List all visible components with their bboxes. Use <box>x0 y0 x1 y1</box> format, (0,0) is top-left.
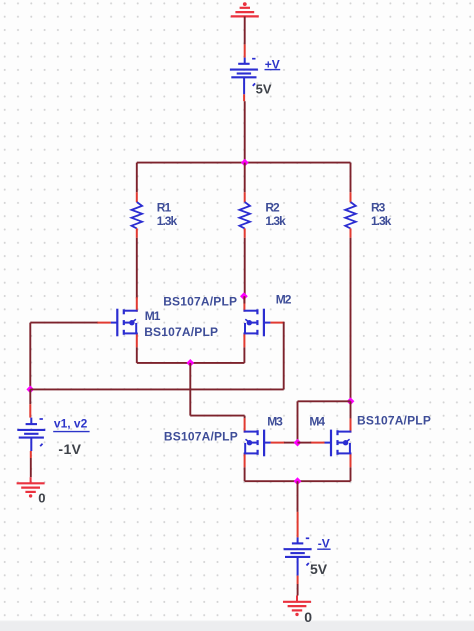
wire R3 down to mirror node <box>350 238 352 401</box>
voltage source v1,v2 positive pin <box>30 404 31 424</box>
svg-text:M2: M2 <box>276 293 292 307</box>
wire node to M4 gate <box>298 442 312 444</box>
svg-text:BS107A/PLP: BS107A/PLP <box>164 430 238 444</box>
resistor R2 bottom pin <box>244 228 246 237</box>
svg-text:1.3k: 1.3k <box>157 214 178 228</box>
wire bus to R3 <box>350 163 352 193</box>
svg-text:BS107A/PLP: BS107A/PLP <box>163 295 237 309</box>
label M3 <box>267 415 283 429</box>
value label BS107A/PLP of M4 <box>357 414 431 428</box>
svg-text:1.3k: 1.3k <box>371 214 392 228</box>
wire M2 gate riser <box>283 322 285 390</box>
value label 1.3k of R2 <box>265 214 286 228</box>
svg-text:M3: M3 <box>267 415 283 429</box>
wire node A horizontal <box>30 388 283 390</box>
voltage source -V negative pin <box>297 557 299 584</box>
svg-text:BS107A/PLP: BS107A/PLP <box>144 325 218 339</box>
svg-text:1.3k: 1.3k <box>265 214 286 228</box>
net label +V <box>265 57 281 71</box>
transistor M2 <box>244 309 271 337</box>
label M2 <box>276 293 292 307</box>
svg-text:R2: R2 <box>265 201 280 215</box>
svg-text:R1: R1 <box>157 201 172 215</box>
wire source bus <box>137 362 245 364</box>
wire v1 source to ground <box>30 458 32 483</box>
wire M4 drain <box>350 401 352 418</box>
value label 1.3k of R1 <box>157 214 178 228</box>
transistor M2 pins <box>244 297 284 347</box>
wire M3 source down <box>244 467 246 481</box>
label R3 <box>371 201 386 215</box>
svg-text:5V: 5V <box>310 561 328 577</box>
wire node A to v1 source <box>29 389 31 404</box>
wire top ground to V+ source <box>244 16 246 44</box>
net label v1, v2 <box>53 417 89 432</box>
resistor R2 top pin <box>244 192 246 202</box>
value label -1V of v1,v2 <box>58 441 81 457</box>
wire mirror node horizontal <box>298 401 351 442</box>
svg-text:0: 0 <box>304 609 312 625</box>
junction node A <box>26 386 34 394</box>
voltage source -V battery <box>284 538 312 565</box>
ground 0 left <box>17 483 45 497</box>
resistor R2 <box>239 202 250 229</box>
junction source bus <box>186 359 194 367</box>
resistor R3 <box>345 202 356 229</box>
transistor M3 <box>244 430 271 457</box>
svg-text:BS107A/PLP: BS107A/PLP <box>357 414 431 428</box>
svg-text:R3: R3 <box>371 201 386 215</box>
transistor M3 pins <box>245 418 285 467</box>
voltage source V+ negative pin <box>243 77 245 101</box>
voltage source v1,v2 battery <box>17 419 45 446</box>
svg-text:M4: M4 <box>309 415 325 429</box>
transistor M1 pins <box>97 297 137 347</box>
wire R2 to M2 drain <box>244 238 246 296</box>
wire M1 source down <box>136 347 138 363</box>
svg-text:v1, v2: v1, v2 <box>54 417 88 431</box>
wire bottom bus to -V source <box>297 481 299 512</box>
wire top bus <box>137 162 351 164</box>
wire node A vertical <box>29 323 31 390</box>
transistor M1 <box>111 309 138 337</box>
wire bottom bus <box>245 480 351 482</box>
wire bus to R1 <box>136 163 138 193</box>
resistor R1 <box>132 202 143 229</box>
resistor R1 top pin <box>136 192 138 202</box>
resistor R1 bottom pin <box>136 228 138 237</box>
value label 1.3k of R3 <box>371 214 392 228</box>
label R1 <box>157 201 172 215</box>
svg-text:M1: M1 <box>145 309 161 323</box>
ground 0 bottom <box>283 602 311 616</box>
voltage source V+ battery <box>230 59 258 86</box>
wire M2 source down <box>243 347 245 363</box>
svg-text:5V: 5V <box>256 81 272 96</box>
wire R1 to M1 drain <box>136 238 138 299</box>
net label -V <box>317 537 330 551</box>
wire bus to R2 <box>244 163 246 193</box>
label 0 left <box>38 491 45 506</box>
label 0 bottom <box>304 609 312 625</box>
label R2 <box>265 201 280 215</box>
voltage source v1,v2 negative pin <box>30 438 33 458</box>
value label 5V of -V <box>310 561 328 577</box>
wire V+ to top bus <box>244 101 246 162</box>
label M4 <box>309 415 325 429</box>
wire M4 source down <box>350 467 352 481</box>
wire M1 gate left <box>30 322 97 324</box>
label M1 <box>145 309 161 323</box>
value label BS107A/PLP of M3 <box>164 430 238 444</box>
wire source bus to M3 drain <box>190 363 244 419</box>
value label BS107A/PLP of M2 <box>163 295 237 309</box>
junction R3 / M4 drain <box>347 397 355 405</box>
voltage source V+ positive pin <box>244 44 246 63</box>
value label 5V of V+ <box>256 81 272 96</box>
svg-text:-V: -V <box>318 537 330 551</box>
resistor R3 top pin <box>350 192 352 202</box>
resistor R3 bottom pin <box>350 228 352 237</box>
junction R2 / M2 drain <box>240 292 248 300</box>
ground 0 at top (flipped) <box>231 2 259 16</box>
value label BS107A/PLP of M1 <box>144 325 218 339</box>
transistor M4 pins <box>311 418 351 467</box>
wire -V source to bottom ground <box>296 584 299 602</box>
wire junction to M2 drain <box>243 296 245 303</box>
junction bottom bus <box>294 477 302 485</box>
wire M3 gate to node <box>284 442 298 444</box>
voltage source -V positive pin <box>297 512 299 544</box>
junction M3/M4 gate node <box>294 439 302 447</box>
transistor M4 <box>325 430 352 457</box>
junction top bus / V+ <box>241 159 249 167</box>
svg-text:-1V: -1V <box>58 441 81 457</box>
svg-text:0: 0 <box>38 491 45 506</box>
